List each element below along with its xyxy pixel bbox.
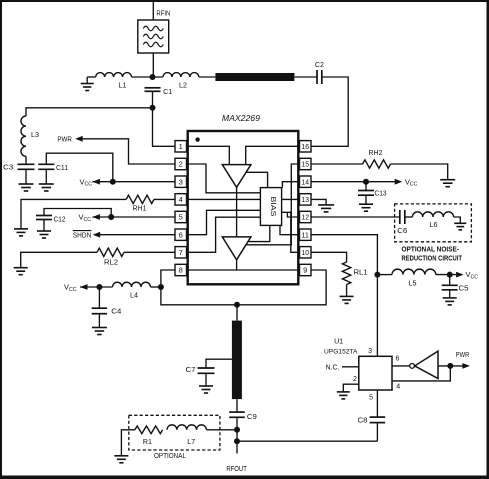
label C2 [315,62,324,69]
label C9 [247,414,257,421]
wire Z2 to C9 [236,399,238,412]
svg-text:L7: L7 [187,439,195,446]
resistor RH1 [126,195,154,203]
capacitor C7 [198,368,215,373]
label L7 [187,439,195,446]
svg-text:3: 3 [179,177,183,186]
label C12 [54,217,66,224]
label RL2 [104,259,118,266]
label MAX2269 [222,113,260,123]
svg-text:C9: C9 [247,414,257,421]
wire A2 out [236,260,238,270]
svg-text:2: 2 [353,376,357,383]
svg-text:L1: L1 [119,82,127,89]
svg-text:N.C.: N.C. [326,364,340,371]
transistor U1 body [359,356,392,390]
pin 1 marker dot [195,137,199,141]
label L4 [130,293,138,300]
wire pin 14 internal [282,182,299,188]
svg-text:RH1: RH1 [133,206,147,213]
svg-text:C5: C5 [459,286,469,293]
capacitor C3 [18,164,35,169]
inverter U2 [415,351,438,378]
ground (C12) [37,220,51,239]
node Z2 top [234,302,240,308]
svg-text:REDUCTION CIRCUIT: REDUCTION CIRCUIT [402,256,463,263]
wire pin 15 internal [247,164,300,245]
pin 5 label U1 [369,395,373,402]
wire pin 10 to RL1 [311,252,347,262]
ground (L1) [81,77,94,91]
inverter bubble [410,364,415,369]
pin 6 label U1 [396,356,400,363]
svg-text:5: 5 [369,395,373,402]
ground (C11) [39,169,54,191]
ground (pin 13) [318,205,334,212]
svg-text:RL2: RL2 [104,259,118,266]
label L2 [179,82,187,89]
svg-text:RFIN: RFIN [156,10,170,17]
node VCC pin 3 [110,179,116,185]
wire U1 pin 6 to inverter [392,365,410,367]
ground (R1) [114,456,128,463]
op-amp A2 [222,237,251,260]
svg-text:12: 12 [301,213,309,222]
svg-text:13: 13 [301,195,309,204]
wire L1 left [87,76,96,78]
wire RL2 to pin 7 [124,251,175,253]
svg-text:C12: C12 [54,217,66,224]
wire PWR to pin 2 [83,139,176,164]
label C8 [358,418,368,425]
label C3 [3,165,13,172]
arrow VCC pin 5 [92,214,100,220]
wire N.C. to U1 [342,366,359,368]
label VCC (L5) [466,270,479,280]
pin 2 label U1 [353,376,357,383]
microstrip Z2 [232,321,242,400]
wire pin 4 internal [187,198,261,200]
svg-text:6: 6 [179,230,183,239]
svg-text:14: 14 [301,177,309,186]
pin boxes 1-8 [175,141,187,276]
label L5 [409,281,417,288]
wire C8 to RFOUT rail [376,423,378,442]
wire filter to node A [152,53,154,77]
pin boxes 9-16 [300,141,312,276]
wire L4 to node [151,286,161,288]
svg-text:BIAS: BIAS [269,197,276,217]
svg-text:C2: C2 [315,62,324,69]
svg-text:PWR: PWR [57,136,72,143]
wire node B to L3 [26,108,153,116]
label REDUCTION CIRCUIT [402,256,463,263]
svg-text:OPTIONAL: OPTIONAL [154,453,186,460]
label VCC (pin 14) [405,177,418,187]
label VCC (pin 5) [79,213,92,223]
wire pin 2 internal [187,164,261,193]
label C13 [375,190,387,197]
op-amp A1 [222,165,251,188]
arrow PWR out [462,363,470,369]
label OPTIONAL [154,453,186,460]
inductor L5 [392,269,436,274]
svg-text:1: 1 [179,142,183,151]
wire VCC to pin 3 [92,181,175,183]
node C5 [447,272,453,278]
wire Z1 to C2 [294,76,317,78]
wire A1 out to A2 [236,187,238,237]
wire C1 to pin 1 [153,91,176,146]
svg-text:C13: C13 [375,190,387,197]
label SHDN [73,231,92,240]
wire RH2 to ground [391,164,448,180]
wire pin 6 internal [187,210,261,234]
label RFOUT [226,466,247,473]
bias block BIAS [260,188,281,226]
capacitor C4 [92,287,107,314]
label C4 [111,309,121,316]
svg-text:UPG152TA: UPG152TA [324,349,358,356]
svg-text:L2: L2 [179,82,187,89]
label PWR (pin 2) [57,136,72,143]
svg-text:RL1: RL1 [354,269,368,276]
label U1 [334,338,343,345]
svg-text:L3: L3 [31,132,39,139]
wire inverter out [438,365,463,367]
label VCC (pin 3) [80,177,93,187]
svg-text:RH2: RH2 [369,150,383,157]
inductor L3 [21,116,26,156]
label N.C. [326,364,340,371]
svg-text:15: 15 [301,160,309,169]
capacitor C8 [370,417,386,423]
inductor L6 [412,212,453,217]
resistor R1 [135,426,163,434]
arrow SHDN [93,232,101,238]
capacitor C12 [36,216,52,220]
svg-text:11: 11 [301,230,309,239]
wire L5 to VCC [436,274,457,276]
capacitor C5 [442,275,458,290]
wire A1 to BIAS [246,172,268,187]
microstrip Z1 [215,73,294,81]
ground (RL2) [14,268,28,275]
ground (L6) [454,223,466,230]
arrow VCC (L5) [456,272,464,278]
wire pin 7 internal [187,217,261,252]
label PWR (U1) [456,352,470,359]
wire C11 to VCC node [46,153,113,182]
ground (C5) [443,290,457,305]
node pin 14 [363,179,369,185]
node A [150,74,156,80]
capacitor C6 [400,210,405,224]
wire VCC to L4 [80,286,113,288]
wire node to C13 [365,182,367,191]
wire pin 12 internal [287,212,299,217]
label R1 [143,439,152,446]
label OPTIONAL NOISE- [402,246,460,253]
ground (C7) [199,373,213,393]
inductor L2 [163,73,199,77]
svg-text:L6: L6 [430,222,438,229]
label L6 [430,222,438,229]
svg-text:OPTIONAL NOISE-: OPTIONAL NOISE- [402,246,460,253]
wire pin 1 internal [187,146,230,164]
svg-text:C7: C7 [186,367,196,374]
wire U1 pin 5 to C8 [376,390,378,417]
wire RFIN input [152,2,154,20]
ground (C13) [359,195,373,211]
wire L3 to C3 [25,156,27,164]
svg-text:9: 9 [303,266,307,275]
capacitor C1 [145,88,161,92]
ground (U1 pin 2) [337,392,350,399]
wire node to Z2 [236,305,238,321]
wire output rail pins 8-9 [187,269,300,271]
node B [150,105,156,111]
wire pin 14 VCC [311,181,395,183]
wire RL2 to ground [21,252,97,267]
resistor RL2 [97,248,124,256]
wire pin 15 to RH2 [311,163,363,165]
svg-text:L4: L4 [130,293,138,300]
svg-text:2: 2 [179,160,183,169]
wire RH1 to ground [21,199,126,229]
label VCC (L4) [64,283,77,293]
wire BIAS to A2 [249,225,270,241]
svg-text:C3: C3 [3,165,13,172]
wire pin 11 internal [280,225,300,234]
noise reduction dashed box [395,204,472,242]
pin 3 label U1 [368,348,372,355]
wire Z2 to C7 [206,359,232,368]
node C9 bottom [234,427,240,433]
label C5 [459,286,469,293]
capacitor C11 [38,164,54,169]
node RFOUT [234,438,240,444]
wire RH1 to pin 4 [154,198,175,200]
arrow VCC (L4) [80,284,88,290]
svg-text:5: 5 [179,213,183,222]
wire R1 to ground [121,430,134,456]
svg-text:10: 10 [301,248,309,257]
wire L7 to node [206,429,237,431]
wire node to L5 [377,274,392,276]
wire C12 to VCC node [44,209,111,218]
wire L1 to node A [132,76,164,78]
label L3 [31,132,39,139]
label L1 [119,82,127,89]
node PWR [447,363,453,369]
wire U1 pin 2 to ground [343,384,359,392]
node VCC pin 5 [108,214,114,220]
svg-text:8: 8 [179,266,183,275]
label C11 [56,165,68,172]
svg-text:SHDN: SHDN [73,233,92,240]
wire pin 12 to C6 [311,216,400,218]
wire pin 13 to ground [311,199,326,205]
svg-text:3: 3 [368,348,372,355]
arrow VCC pin 3 [92,179,100,185]
arrow PWR [75,136,83,142]
svg-text:R1: R1 [143,439,152,446]
wire pin 13 internal [282,198,300,200]
wire RFOUT node to C8 [237,440,377,442]
arrow VCC pin 14 [395,179,403,185]
capacitor C9 [229,412,245,417]
svg-text:MAX2269: MAX2269 [222,113,260,123]
filter FL1 [138,20,169,53]
wire L6 to ground [454,217,461,223]
label RL1 [354,269,368,276]
svg-text:RFOUT: RFOUT [226,466,247,473]
svg-text:C11: C11 [56,165,68,172]
wire pin 16 internal [246,146,300,164]
inductor L4 [113,282,151,287]
ground (RH1) [14,229,28,236]
label UPG152TA [324,349,358,356]
wire VCC to pin 5 [92,216,175,218]
svg-text:PWR: PWR [456,352,470,359]
inductor L7 [167,425,206,430]
label C7 [186,367,196,374]
node C4 [96,284,102,290]
capacitor C13 [358,191,374,196]
ground (C3) [19,169,34,191]
wire pin 9 down [161,270,326,305]
wire SHDN to pin 6 [100,234,175,236]
label C6 [397,228,407,235]
ground (RL1) [340,285,354,304]
svg-text:4: 4 [179,195,183,204]
svg-text:C6: C6 [397,228,407,235]
node L5 [374,272,380,278]
label RH1 [133,206,147,213]
wire BIAS to pin 10 [282,212,300,252]
wire U1 pin 4 feedback [392,366,450,381]
capacitor C2 [317,70,322,84]
svg-text:4: 4 [396,383,400,390]
node L4 right [158,284,164,290]
op-amp U? IC body MAX2269 [188,131,299,284]
resistor RL1 [342,262,350,285]
svg-text:6: 6 [396,356,400,363]
optional dashed box [129,415,220,450]
svg-text:16: 16 [301,142,309,151]
wire C2 to pin 16 [311,77,348,146]
wire C9 to RFOUT [236,417,238,453]
wire L2 to Z1 [199,76,216,78]
svg-text:C4: C4 [111,309,121,316]
svg-text:C1: C1 [163,89,172,96]
svg-text:U1: U1 [334,338,343,345]
ground (RH2) [440,180,455,187]
ground (C4) [92,314,107,335]
label C1 [163,89,172,96]
wire C6 to L6 [405,216,413,218]
svg-text:7: 7 [179,248,183,257]
pin 4 label U1 [396,383,400,390]
svg-text:L5: L5 [409,281,417,288]
svg-text:C8: C8 [358,418,368,425]
inductor L1 [96,73,132,77]
wire pin 11 to U1 pin 3 [311,235,377,357]
resistor RH2 [363,160,391,168]
label RFIN [156,10,170,17]
label RH2 [369,150,383,157]
